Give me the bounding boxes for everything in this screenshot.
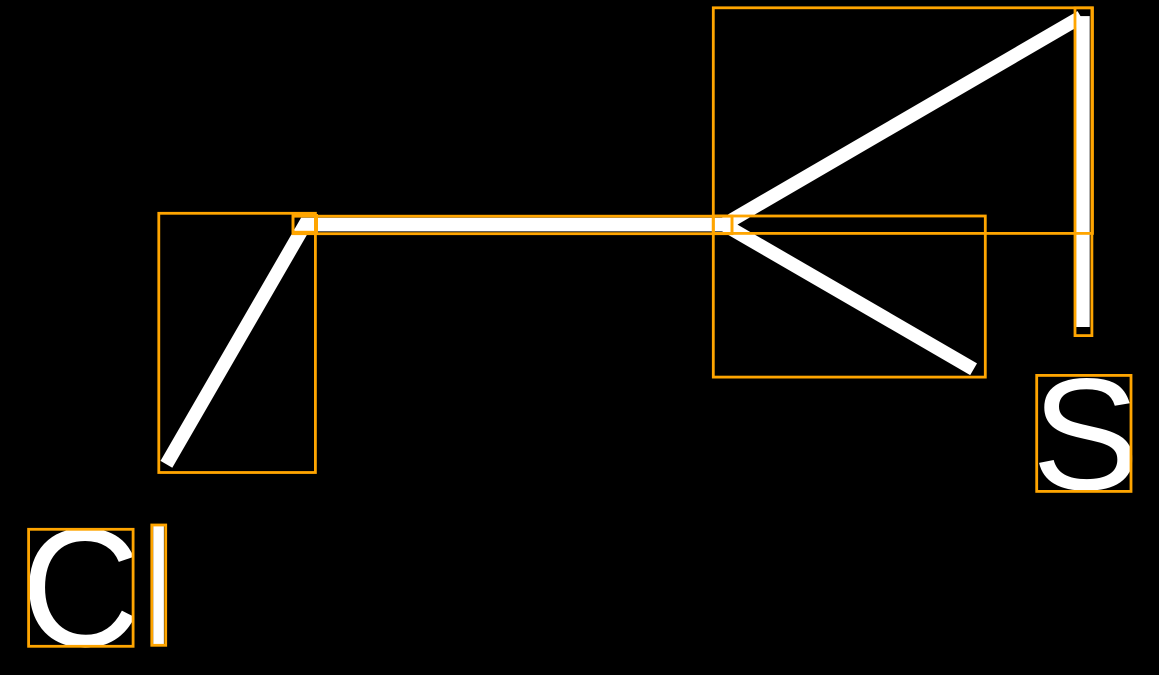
wire bond down-right diagonal — [724, 225, 974, 370]
wire bond up-right diagonal — [724, 17, 1081, 225]
wire bond Cl-C diagonal and C-C horizontal — [166, 225, 731, 465]
box atom node right junction — [713, 216, 732, 233]
box around letter C — [29, 529, 134, 646]
wire bond vertical to S — [1076, 16, 1090, 327]
svg-text:S: S — [1032, 346, 1140, 523]
box around letter l — [152, 525, 166, 645]
box around vertical bond — [1075, 8, 1092, 336]
box atom node left junction — [293, 215, 317, 232]
box around Cl-C bond — [159, 213, 316, 472]
box around down-right bond — [713, 216, 985, 377]
node Cl label letter l — [153, 525, 164, 645]
box around atom S — [1037, 375, 1131, 491]
box around up-right bond — [713, 8, 1092, 234]
box around horizontal bond — [293, 216, 732, 234]
